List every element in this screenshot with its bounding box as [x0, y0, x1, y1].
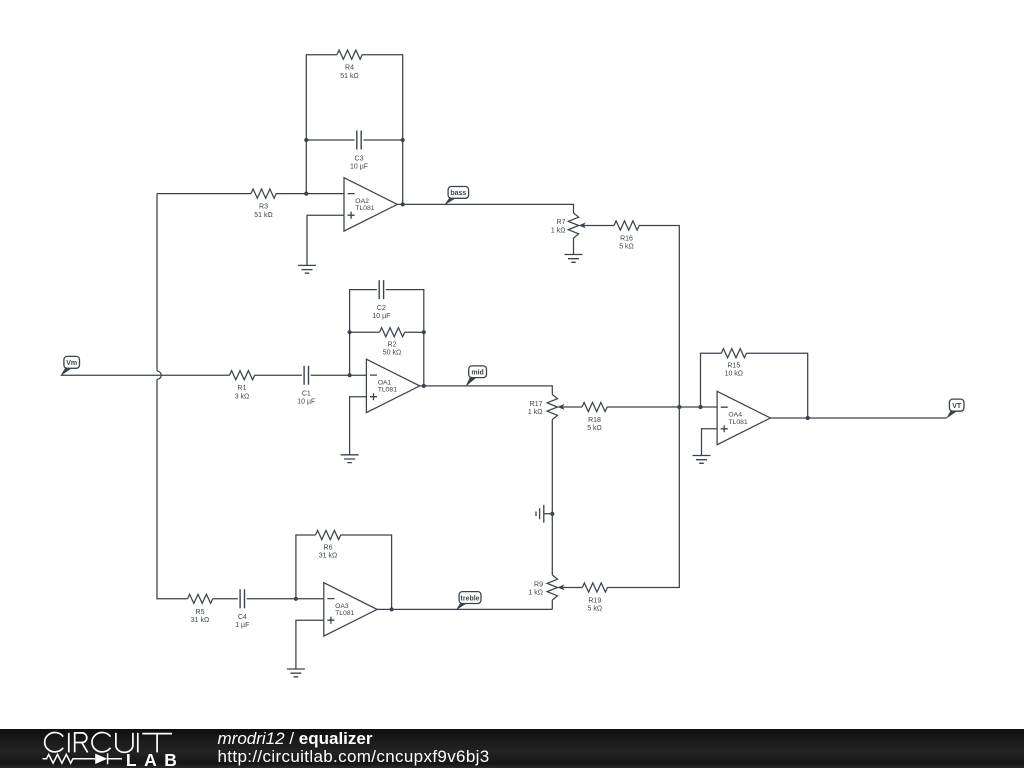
- svg-text:mid: mid: [471, 370, 483, 377]
- svg-text:OA4: OA4: [728, 411, 742, 418]
- svg-text:OA2: OA2: [355, 198, 369, 205]
- svg-text:31 kΩ: 31 kΩ: [191, 617, 209, 624]
- svg-text:R6: R6: [324, 544, 333, 551]
- svg-text:10 µF: 10 µF: [297, 399, 315, 406]
- svg-text:TL081: TL081: [335, 610, 354, 617]
- svg-text:R5: R5: [196, 609, 205, 616]
- svg-text:3 kΩ: 3 kΩ: [235, 393, 250, 400]
- svg-text:OA1: OA1: [378, 379, 392, 386]
- svg-text:R2: R2: [388, 342, 397, 349]
- svg-text:R16: R16: [620, 236, 633, 243]
- svg-text:C2: C2: [377, 305, 386, 312]
- svg-text:51 kΩ: 51 kΩ: [254, 212, 272, 219]
- svg-text:51 kΩ: 51 kΩ: [340, 73, 358, 80]
- svg-text:R7: R7: [557, 219, 566, 226]
- svg-text:50 kΩ: 50 kΩ: [383, 350, 401, 357]
- svg-text:1 kΩ: 1 kΩ: [551, 227, 566, 234]
- svg-text:R1: R1: [238, 385, 247, 392]
- svg-text:C1: C1: [302, 390, 311, 397]
- svg-text:1 µF: 1 µF: [235, 622, 249, 629]
- svg-text:10 µF: 10 µF: [350, 164, 368, 171]
- svg-text:R4: R4: [345, 65, 354, 72]
- svg-text:R19: R19: [588, 598, 601, 605]
- svg-text:5 kΩ: 5 kΩ: [587, 425, 602, 432]
- svg-text:TL081: TL081: [355, 205, 374, 212]
- svg-text:C4: C4: [238, 614, 247, 621]
- svg-text:C3: C3: [355, 155, 364, 162]
- svg-text:TL081: TL081: [378, 387, 397, 394]
- svg-text:R18: R18: [588, 417, 601, 424]
- svg-text:R17: R17: [530, 401, 543, 408]
- svg-text:R3: R3: [259, 204, 268, 211]
- svg-text:1 kΩ: 1 kΩ: [528, 409, 543, 416]
- svg-text:5 kΩ: 5 kΩ: [619, 244, 634, 251]
- svg-text:R15: R15: [727, 362, 740, 369]
- svg-text:OA3: OA3: [335, 603, 349, 610]
- svg-text:5 kΩ: 5 kΩ: [588, 606, 603, 613]
- svg-text:TL081: TL081: [728, 419, 747, 426]
- svg-text:1 kΩ: 1 kΩ: [528, 590, 543, 597]
- svg-text:10 kΩ: 10 kΩ: [725, 371, 743, 378]
- svg-text:10 µF: 10 µF: [372, 313, 390, 320]
- svg-text:bass: bass: [450, 190, 466, 197]
- svg-text:R9: R9: [534, 582, 543, 589]
- svg-text:treble: treble: [461, 595, 480, 602]
- svg-text:VT: VT: [952, 403, 962, 410]
- svg-text:31 kΩ: 31 kΩ: [319, 553, 337, 560]
- svg-text:Vm: Vm: [66, 360, 77, 367]
